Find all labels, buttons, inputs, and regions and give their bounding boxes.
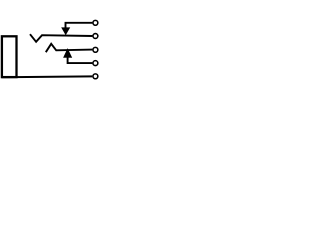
wire: bottom conductor to terminal T5 [2,75,93,78]
terminal T3 [93,47,98,52]
terminal T5 [93,74,98,79]
wire: lower resistance wire with caret kink [46,44,93,52]
terminal T2 [93,34,98,39]
terminal T1 [93,20,98,25]
resistor R1 (box element, left) [2,36,17,77]
wire to terminal T4 [68,57,93,63]
wire to terminal T1 [66,23,93,28]
terminal T4 [93,61,98,66]
wiper arrow 1 (points down onto top wire) [62,28,70,35]
wire: top resistance wire with v-kink [30,34,92,42]
wiper arrow 2 (points up onto lower wire) [64,49,72,58]
